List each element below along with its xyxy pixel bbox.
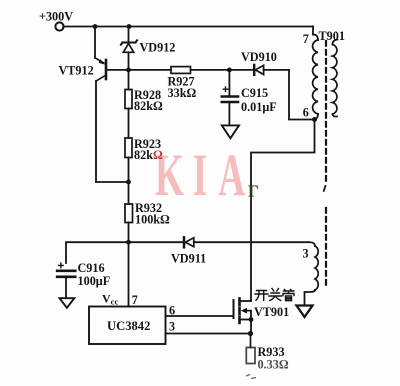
svg-text:I: I <box>193 142 207 208</box>
svg-text:+300V: +300V <box>39 10 73 24</box>
svg-text:82kΩ: 82kΩ <box>134 99 163 113</box>
transistor VT912 <box>95 27 129 183</box>
svg-text:T901: T901 <box>319 29 345 43</box>
junction dot A (emitter tap) <box>93 24 98 29</box>
junction dot collector node <box>126 180 131 185</box>
svg-text:C916: C916 <box>78 261 105 275</box>
svg-text:6: 6 <box>169 304 175 318</box>
capacitor C916 <box>57 263 75 297</box>
svg-text:VD912: VD912 <box>140 40 176 54</box>
junction dot sense node <box>248 331 253 336</box>
ground (C916) <box>60 298 75 308</box>
resistor R933 <box>250 334 252 348</box>
svg-text:VT901: VT901 <box>254 305 289 319</box>
junction dot B (VD912 tap) <box>127 24 132 29</box>
resistor R923 <box>125 138 132 158</box>
transformer T901 primary winding <box>313 35 318 41</box>
svg-text:0.33Ω: 0.33Ω <box>258 358 289 372</box>
svg-text:7: 7 <box>132 293 138 307</box>
node +300V terminal <box>55 22 63 30</box>
wire pin6 stub to gate <box>166 315 234 317</box>
svg-text:3: 3 <box>303 246 309 260</box>
wire VD910 to pin6 <box>289 70 313 120</box>
watermark KIA <box>155 142 245 208</box>
zener diode VD912 <box>121 27 137 70</box>
svg-text:VT912: VT912 <box>59 63 94 77</box>
wire transformer pin7 lead <box>312 27 314 35</box>
svg-text:82kΩ: 82kΩ <box>134 148 163 162</box>
svg-text:A: A <box>218 142 245 208</box>
junction dot pin 6 <box>312 117 317 122</box>
IC U1 UC3842 box <box>89 307 166 345</box>
svg-text:Γ: Γ <box>248 182 259 201</box>
wire top rail <box>63 26 313 28</box>
label switch tube (Chinese: kai guan guan) <box>255 289 294 301</box>
ground (feedback winding) <box>297 306 313 318</box>
wire Vcc node to UC3842 pin7 <box>128 242 130 306</box>
diode VD911 <box>129 237 310 247</box>
svg-text:UC3842: UC3842 <box>107 319 150 333</box>
svg-text:C915: C915 <box>241 86 268 100</box>
feedback winding (pin 3) <box>309 242 315 246</box>
svg-text:6: 6 <box>303 106 309 120</box>
svg-text:33kΩ: 33kΩ <box>168 86 197 100</box>
wire C915 node to VD910 <box>229 69 253 71</box>
transformer T901 secondary winding <box>333 40 338 45</box>
svg-text:7: 7 <box>303 32 309 46</box>
wire Vcc node to C916 <box>66 242 129 263</box>
svg-text:0.01μF: 0.01μF <box>241 100 277 114</box>
resistor R927 <box>171 67 191 74</box>
transistor VT901 (MOSFET) <box>234 299 252 334</box>
wire base node to R927 <box>129 69 172 71</box>
wire pin3 stub to source node <box>166 333 251 335</box>
transformer core dashed line <box>325 41 327 185</box>
svg-text:100kΩ: 100kΩ <box>135 212 170 226</box>
resistor R928 <box>125 90 132 109</box>
diode VD910 <box>254 65 289 75</box>
svg-text:VD910: VD910 <box>241 50 277 64</box>
wire R927 to C915 node <box>191 69 230 71</box>
junction dot Vcc node <box>126 240 131 245</box>
junction dot source <box>249 317 254 322</box>
junction dot base node <box>126 68 131 73</box>
junction dot C915 tap <box>227 68 232 73</box>
svg-text:100μF: 100μF <box>78 274 111 288</box>
ground (C915) <box>222 125 239 138</box>
wire pin6 to drain <box>251 120 315 302</box>
resistor R932 <box>125 204 133 223</box>
svg-text:VD911: VD911 <box>171 252 206 266</box>
capacitor C915 <box>222 70 238 125</box>
svg-text:3: 3 <box>169 320 175 334</box>
artifact marks below R933 <box>246 375 256 379</box>
